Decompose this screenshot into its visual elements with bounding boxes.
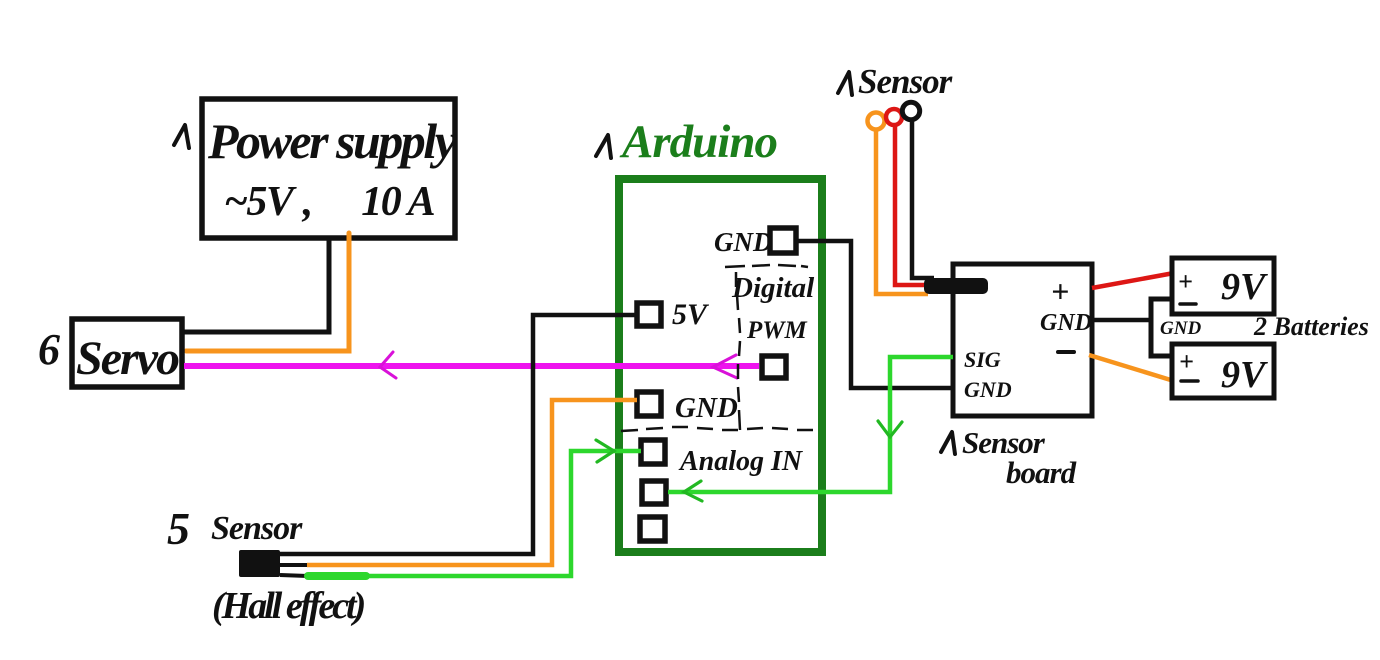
pin A2 (642, 481, 666, 504)
label GND left (675, 392, 738, 424)
svg-text:Sensor: Sensor (211, 510, 303, 547)
svg-text:PWM: PWM (746, 317, 808, 344)
svg-text:+: + (1051, 273, 1069, 309)
pin GND left (637, 392, 661, 416)
arrowhead green down (SIG wire) (878, 421, 902, 437)
label + (battery 2) (1179, 347, 1194, 376)
svg-text:+: + (1179, 347, 1194, 376)
power supply PS1 box (202, 99, 455, 238)
dashed separator vertical digital section (736, 272, 740, 430)
svg-text:Servo: Servo (76, 332, 179, 385)
svg-text:SIG: SIG (964, 347, 1001, 372)
svg-text:Arduino: Arduino (619, 116, 777, 168)
label Sensor (hall) (211, 510, 303, 547)
wire black sensor to board (912, 120, 934, 278)
arrowhead green into A1 (596, 440, 614, 462)
label PWM (746, 317, 808, 344)
label Analog IN (678, 446, 804, 477)
servo M1 box (72, 319, 182, 387)
svg-text:GND: GND (714, 227, 773, 257)
ring orange (868, 113, 885, 130)
svg-text:Digital: Digital (731, 272, 815, 304)
label quantity 1 (power supply) (174, 125, 189, 148)
svg-text:Sensor: Sensor (858, 62, 953, 101)
svg-text:GND: GND (675, 392, 738, 424)
pin PWM (762, 356, 786, 378)
label quantity 6 (servo) (38, 325, 60, 374)
svg-text:GND: GND (1040, 310, 1092, 336)
wire magenta PWM to servo (184, 363, 759, 369)
label 5V (672, 298, 710, 331)
pin GND top (arduino digital) (770, 228, 796, 253)
label Digital (731, 272, 815, 304)
arrowhead magenta near PWM pin (713, 355, 737, 378)
label GND (board left) (964, 377, 1012, 402)
label 2 Batteries (1253, 312, 1369, 341)
pin 5V (637, 303, 661, 326)
svg-text:5: 5 (167, 503, 190, 554)
label quantity 1 (sensor top) (838, 72, 852, 95)
hall sensor body (239, 550, 280, 577)
hall sensor legs (black stubs) (280, 565, 310, 576)
label - (board) (1058, 350, 1074, 354)
svg-text:+: + (1178, 267, 1193, 296)
sensor board U2 box (953, 264, 1092, 416)
svg-text:~5V , 10 A: ~5V , 10 A (224, 179, 435, 225)
wire green thick segment at hall sensor (308, 572, 366, 580)
label quantity 1 (sensor board) (941, 432, 955, 454)
label Sensor board line2 (1006, 455, 1077, 490)
wire orange hall sensor to arduino GND (307, 400, 637, 565)
label Power supply (207, 113, 458, 169)
wire black arduino GND to sensor board GND (796, 241, 953, 388)
label + (battery 1) (1178, 267, 1193, 296)
label Sensor board line1 (962, 425, 1046, 460)
wire red board to battery 1 (1092, 273, 1174, 288)
svg-text:Analog IN: Analog IN (678, 446, 804, 477)
svg-text:6: 6 (38, 325, 60, 374)
ring black (902, 102, 919, 119)
label SIG (964, 347, 1001, 372)
label Arduino (619, 116, 777, 168)
label - (battery 1) (1180, 302, 1196, 306)
label - (battery 2) (1181, 379, 1198, 383)
label Servo (76, 332, 179, 385)
wire red sensor to board (895, 124, 930, 285)
pin A1 (641, 440, 665, 464)
label GND top (714, 227, 773, 257)
wire orange sensor to board (876, 130, 928, 294)
ring red (886, 109, 902, 125)
svg-text:GND: GND (964, 377, 1012, 402)
wire black hall sensor to arduino 5V (280, 315, 637, 554)
svg-text:Power supply: Power supply (207, 113, 458, 169)
connector bar (black) (924, 278, 988, 294)
pin A3 (640, 517, 665, 541)
svg-text:GND: GND (1160, 318, 1201, 339)
arduino U1 box (619, 179, 822, 552)
dashed separator analog section (621, 427, 813, 431)
svg-text:9V: 9V (1221, 266, 1268, 308)
dashed separator above Digital (725, 265, 808, 267)
label 5 (hall sensor quantity) (167, 503, 190, 554)
label 9V (battery 2) (1221, 354, 1268, 396)
wire black board GND to batteries GND (1092, 318, 1151, 323)
label GND (batteries) (1160, 318, 1201, 339)
wire orange board minus to battery 2 (1089, 355, 1174, 381)
label (Hall effect) (212, 585, 365, 627)
label 9V (battery 1) (1221, 266, 1268, 308)
label quantity 1 (arduino) (596, 135, 611, 158)
wire black power supply to servo (184, 240, 329, 332)
label Sensor (top) (858, 62, 953, 101)
svg-text:(Hall effect): (Hall effect) (212, 585, 365, 627)
label ~5V , 10A (224, 179, 435, 225)
battery B2 box (bottom 9V) (1172, 344, 1274, 398)
svg-text:board: board (1006, 455, 1077, 490)
label + (board) (1051, 273, 1069, 309)
label GND (board right) (1040, 310, 1092, 336)
svg-text:2 Batteries: 2 Batteries (1253, 312, 1369, 341)
wire green hall sensor to arduino A1 (307, 451, 641, 576)
battery B1 box (top 9V) (1172, 258, 1274, 314)
arrowhead magenta near servo (380, 352, 396, 378)
wire orange power supply to servo (186, 233, 349, 351)
svg-text:9V: 9V (1221, 354, 1268, 396)
svg-text:5V: 5V (672, 298, 710, 331)
wire green SIG to arduino A2 (668, 357, 953, 492)
battery GND bracket (1151, 299, 1172, 356)
arrowhead green into A2 (684, 481, 702, 501)
